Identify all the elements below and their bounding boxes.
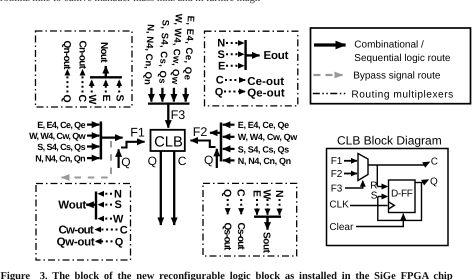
svg-text:Eout: Eout bbox=[264, 50, 289, 62]
svg-text:Qw-out: Qw-out bbox=[57, 237, 95, 249]
svg-text:F2: F2 bbox=[193, 125, 208, 139]
svg-text:Q: Q bbox=[215, 86, 224, 98]
svg-text:Bypass signal route: Bypass signal route bbox=[353, 71, 441, 82]
svg-text:W, W4, Cw, Qw: W, W4, Cw, Qw bbox=[29, 131, 86, 141]
svg-text:F3: F3 bbox=[171, 108, 186, 122]
svg-text:Q: Q bbox=[430, 177, 438, 188]
svg-text:S: S bbox=[115, 199, 122, 211]
svg-text:Qe-out: Qe-out bbox=[247, 88, 285, 100]
svg-text:D-FF: D-FF bbox=[391, 189, 413, 200]
svg-text:C: C bbox=[431, 157, 438, 168]
svg-text:W, W4, Cw, Qw: W, W4, Cw, Qw bbox=[238, 132, 298, 142]
svg-text:C: C bbox=[234, 189, 246, 197]
svg-text:F2: F2 bbox=[331, 169, 343, 180]
svg-text:W: W bbox=[86, 95, 98, 105]
svg-text:C: C bbox=[120, 225, 128, 237]
svg-text:CLB: CLB bbox=[154, 135, 183, 151]
svg-text:Q: Q bbox=[204, 153, 213, 167]
svg-text:Cs-out: Cs-out bbox=[235, 223, 246, 251]
svg-text:F3: F3 bbox=[331, 184, 343, 195]
svg-text:W: W bbox=[113, 213, 124, 225]
svg-text:E: E bbox=[218, 61, 225, 73]
svg-text:S, S4, Cs, Qs: S, S4, Cs, Qs bbox=[238, 144, 289, 154]
svg-text:N, N4, Cn, Qn: N, N4, Cn, Qn bbox=[142, 24, 156, 85]
svg-text:Sequential logic route: Sequential logic route bbox=[354, 53, 451, 64]
svg-text:W: W bbox=[260, 190, 272, 200]
svg-text:S, S4, Cs, Qs: S, S4, Cs, Qs bbox=[37, 142, 85, 152]
svg-text:Ce-out: Ce-out bbox=[247, 76, 284, 88]
svg-text:S: S bbox=[218, 49, 225, 61]
svg-text:CLB Block Diagram: CLB Block Diagram bbox=[337, 133, 442, 147]
svg-text:E, E4, Ce, Qe: E, E4, Ce, Qe bbox=[238, 120, 289, 130]
svg-text:Q: Q bbox=[121, 155, 130, 169]
svg-text:Qn-out: Qn-out bbox=[61, 41, 72, 71]
svg-text:CLK: CLK bbox=[329, 199, 349, 210]
svg-text:N, N4, Cn, Qn: N, N4, Cn, Qn bbox=[238, 156, 291, 166]
svg-text:Combinational /: Combinational / bbox=[354, 40, 424, 51]
svg-text:C: C bbox=[216, 75, 224, 87]
svg-text:Q: Q bbox=[61, 95, 73, 103]
svg-text:E: E bbox=[100, 95, 112, 102]
svg-text:F1: F1 bbox=[331, 156, 343, 167]
svg-text:Q: Q bbox=[148, 154, 157, 168]
svg-text:N: N bbox=[217, 38, 225, 50]
svg-text:Routing multiplexers: Routing multiplexers bbox=[351, 89, 453, 100]
svg-text:Q: Q bbox=[221, 189, 233, 197]
svg-text:F1: F1 bbox=[130, 126, 145, 140]
svg-text:S: S bbox=[113, 95, 125, 102]
svg-text:Sout: Sout bbox=[261, 232, 272, 254]
svg-text:Clear: Clear bbox=[329, 222, 354, 233]
svg-text:N: N bbox=[273, 190, 285, 197]
svg-text:Nout: Nout bbox=[98, 42, 109, 63]
svg-text:Cw-out: Cw-out bbox=[59, 225, 94, 237]
svg-text:C: C bbox=[178, 154, 187, 168]
svg-text:Wout: Wout bbox=[58, 199, 86, 211]
svg-text:Cn-out: Cn-out bbox=[76, 41, 87, 70]
svg-text:S: S bbox=[371, 191, 378, 202]
svg-text:E, E4, Ce, Qe: E, E4, Ce, Qe bbox=[37, 120, 85, 130]
svg-text:Q: Q bbox=[115, 236, 124, 248]
svg-text:Qs-out: Qs-out bbox=[221, 223, 232, 251]
svg-text:S, S4, Cs, Qs: S, S4, Cs, Qs bbox=[156, 19, 170, 84]
svg-text:N, N4, Cn, Qn: N, N4, Cn, Qn bbox=[35, 154, 85, 164]
